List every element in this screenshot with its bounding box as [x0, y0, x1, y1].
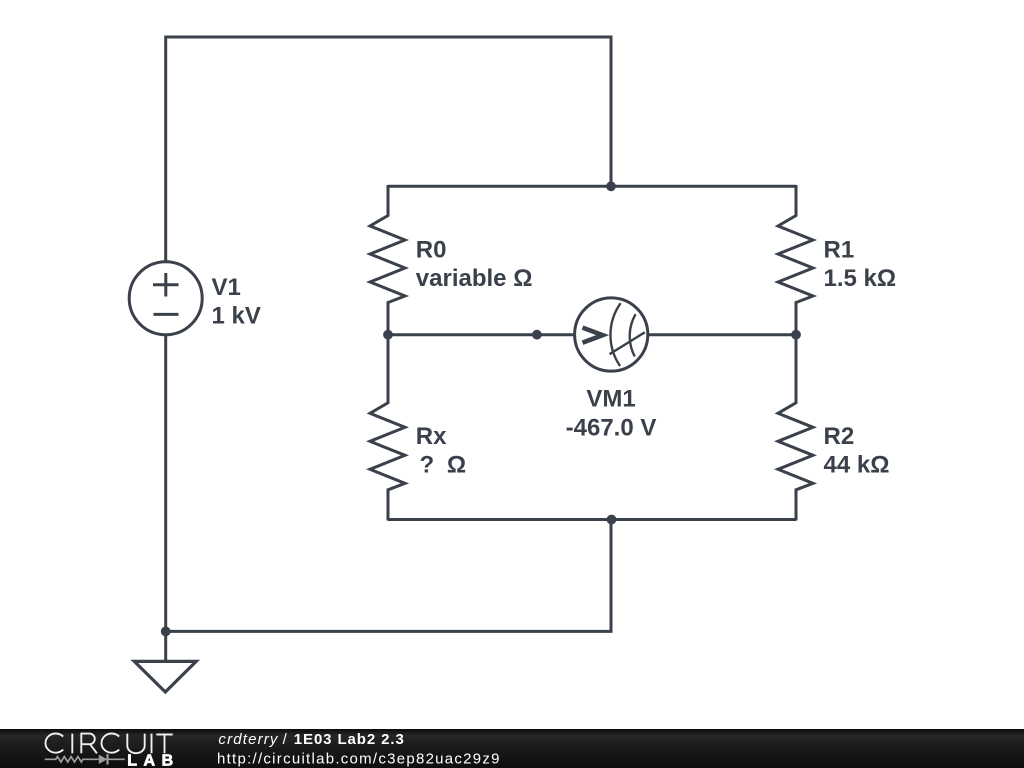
svg-text:-467.0 V: -467.0 V — [566, 415, 657, 442]
wire bridge top rail — [388, 185, 796, 188]
voltmeter VM1 — [575, 298, 648, 371]
wire middle left (bridge mid to voltmeter) — [388, 333, 575, 336]
svg-text:1 kV: 1 kV — [212, 302, 261, 329]
svg-text:R2: R2 — [824, 423, 855, 450]
svg-text:1.5 kΩ: 1.5 kΩ — [824, 265, 897, 292]
svg-text:44 kΩ: 44 kΩ — [824, 451, 890, 478]
svg-text:R1: R1 — [824, 236, 855, 263]
svg-text:variable Ω: variable Ω — [416, 265, 533, 292]
wire bridge bottom rail — [388, 518, 796, 521]
svg-text:VM1: VM1 — [586, 386, 635, 413]
labels — [212, 236, 897, 478]
node ground rail junction — [161, 627, 171, 637]
ground — [134, 661, 196, 692]
svg-text:Rx: Rx — [416, 423, 447, 450]
resistor R2 — [778, 334, 813, 521]
svg-text:V1: V1 — [212, 274, 241, 301]
resistor Rx — [370, 334, 405, 521]
resistor R0 — [370, 185, 405, 335]
svg-text:?: ? — [420, 451, 435, 478]
node top rail junction — [606, 181, 616, 191]
svg-text:1E03 Lab2 2.3: 1E03 Lab2 2.3 — [294, 731, 404, 748]
wire V1 bottom to ground — [164, 336, 167, 662]
wire middle right (voltmeter to bridge mid) — [648, 333, 797, 336]
resistor R1 — [778, 185, 813, 335]
node bridge right mid — [791, 330, 801, 340]
wire top feed from V1 to bridge top — [166, 37, 611, 261]
svg-text:LAB: LAB — [127, 752, 173, 768]
node voltmeter left terminal — [532, 330, 542, 340]
svg-text:http://circuitlab.com/c3ep82ua: http://circuitlab.com/c3ep82uac29z9 — [217, 750, 500, 767]
svg-text:crdterry: crdterry — [218, 731, 279, 748]
voltage source V1 — [129, 262, 202, 335]
logo CIRCUIT (thin strokes) — [45, 734, 172, 754]
wire bottom feed from bridge to ground rail — [166, 520, 611, 632]
logo resistor-diode glyph — [45, 754, 125, 764]
svg-text:R0: R0 — [416, 236, 447, 263]
node junction dots — [161, 181, 801, 636]
node bridge left mid — [383, 330, 393, 340]
node bridge bottom junction — [607, 515, 617, 525]
svg-text:Ω: Ω — [447, 451, 466, 478]
